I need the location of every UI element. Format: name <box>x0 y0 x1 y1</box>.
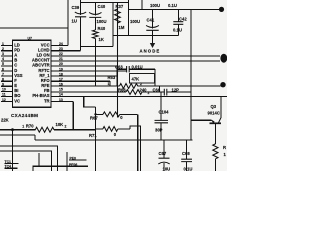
node terminal dot top right <box>219 7 224 12</box>
capacitor C41 electrolytic symbol <box>146 25 159 30</box>
svg-text:R70: R70 <box>26 123 34 128</box>
node junction R67 row <box>94 113 96 115</box>
wire small jog x38.9 <box>38 153 40 166</box>
wire below resistor to bottom <box>214 159 216 171</box>
resistor R63 zigzag <box>120 84 138 89</box>
svg-text:2: 2 <box>65 125 67 129</box>
wire Q3 collector up to pin14 rail <box>220 96 222 117</box>
wire vertical x95.5 bottom continuation <box>95 129 97 171</box>
wire jog R63 row down to R66 row <box>158 86 160 92</box>
svg-text:U7: U7 <box>28 36 32 40</box>
U7 pin 10 stub <box>1 90 13 92</box>
capacitor C66 symbol <box>164 89 167 96</box>
wire R67 right vertical down x137.7 <box>137 114 139 171</box>
svg-text:9014C: 9014C <box>208 110 220 115</box>
U7 pin 9 stub <box>1 85 13 87</box>
node ANODE arrow <box>150 43 155 48</box>
svg-text:Q3: Q3 <box>211 104 217 109</box>
wire jog pin17 to R63 row <box>109 81 111 86</box>
svg-text:9: 9 <box>2 83 4 87</box>
U7 pin 7 stub <box>1 75 13 77</box>
wire vertical x67 bottom <box>66 152 68 171</box>
capacitor C39 electrolytic symbol <box>75 12 86 17</box>
wire box right edge x113 (R37 cell left) <box>112 3 114 47</box>
wire pin20 row <box>51 65 117 67</box>
svg-text:C40: C40 <box>98 4 106 9</box>
svg-text:12: 12 <box>2 98 6 102</box>
wire ANODE feed down from cell bottom <box>152 36 154 44</box>
capacitor C67 electrolytic symbol <box>158 158 169 164</box>
svg-text:240: 240 <box>140 87 148 92</box>
svg-text:R67: R67 <box>90 116 98 121</box>
svg-text:2: 2 <box>2 47 4 51</box>
U7 pin 2 stub <box>1 50 13 52</box>
wire long vertical x190.9 <box>190 9 192 139</box>
U7 pin 12 stub <box>1 101 13 103</box>
resistor R66 zigzag <box>126 90 142 95</box>
wire PE0 underline <box>69 159 87 161</box>
svg-text:VC: VC <box>14 98 20 103</box>
svg-text:5: 5 <box>2 62 4 66</box>
svg-text:R: R <box>223 145 226 150</box>
wire C63 right vertical x155 <box>154 69 156 86</box>
svg-text:47K: 47K <box>132 77 140 82</box>
svg-text:1: 1 <box>2 42 4 46</box>
svg-text:C104: C104 <box>159 110 170 115</box>
U7 pin 5 stub <box>1 65 13 67</box>
U7 pin 8 stub <box>1 80 13 82</box>
svg-text:12P: 12P <box>172 87 180 92</box>
wire vertical x12.5 down <box>12 130 14 171</box>
capacitor C68 branch wire <box>186 140 188 171</box>
wire pin21 ABCCNT rail to right terminal <box>51 60 220 62</box>
op-amp/driver IC U7 CXA244BM body <box>13 40 52 107</box>
resistor R71 zigzag <box>103 127 118 132</box>
svg-text:15: 15 <box>59 88 63 92</box>
svg-text:1K: 1K <box>99 37 104 42</box>
svg-text:R63: R63 <box>108 75 116 80</box>
wire R67 row <box>96 113 138 115</box>
U7 pin 3 stub <box>1 55 13 57</box>
U7 pin 6 stub <box>1 70 13 72</box>
svg-text:CXA244BM: CXA244BM <box>11 113 38 118</box>
svg-text:2: 2 <box>148 91 150 95</box>
svg-text:0.01U: 0.01U <box>132 64 143 69</box>
capacitor C41 branch wire <box>152 9 154 35</box>
wire pin15 row with R66 C66 <box>51 91 191 93</box>
wire R70 row from left edge <box>0 129 96 131</box>
svg-text:0.1U: 0.1U <box>184 167 193 172</box>
resistor R40 zigzag <box>93 30 99 39</box>
wire TC1 underline <box>5 163 19 165</box>
svg-text:10U: 10U <box>163 167 171 172</box>
svg-text:4: 4 <box>2 57 4 61</box>
transistor Q3 symbol <box>210 122 222 124</box>
svg-text:C41: C41 <box>147 18 155 23</box>
U7 pin 1 stub <box>1 45 13 47</box>
capacitor C42 symbol <box>173 22 183 25</box>
wire pin16 / R63 row to right terminal <box>51 85 221 87</box>
resistor R63 value box 47K <box>130 74 155 84</box>
wire R71 jog up and over to x140.6 <box>130 126 141 171</box>
svg-text:C63: C63 <box>115 64 123 69</box>
capacitor C104 symbol <box>155 120 169 122</box>
wire box bottom y46.5 (C40/R40 cell) <box>81 46 114 48</box>
wire C63 row y69.2 <box>117 68 155 70</box>
wire vertical stub x142 top <box>141 0 143 9</box>
svg-text:R37: R37 <box>116 4 124 9</box>
svg-text:11: 11 <box>2 93 6 97</box>
svg-text:100U: 100U <box>150 3 160 8</box>
capacitor C67 branch wire <box>163 140 165 171</box>
resistor R67 zigzag <box>103 112 120 117</box>
svg-text:C66: C66 <box>153 87 161 92</box>
svg-text:0.1U: 0.1U <box>173 28 182 33</box>
wire Q3 left lead from ladder <box>191 119 212 121</box>
wire horizontal to left edge y28 <box>0 27 68 29</box>
wire vertical x95.5 to R67/R71 rows <box>95 107 97 129</box>
wire TC4 underline <box>5 167 18 169</box>
node terminal dot right edge (RF row) <box>220 82 225 87</box>
wire ground rail y139.8 <box>0 135 192 140</box>
svg-text:C42: C42 <box>179 17 187 22</box>
wire pin19 row <box>51 70 126 72</box>
svg-text:7: 7 <box>2 72 4 76</box>
capacitor C40 electrolytic symbol <box>89 12 101 17</box>
wire pin24 stub to riser <box>51 45 68 47</box>
U7 pin 4 stub <box>1 60 13 62</box>
capacitor C63 symbol <box>127 66 130 72</box>
wire pin14 branch down x83.7 <box>84 96 96 106</box>
svg-text:PE06: PE06 <box>69 163 77 167</box>
wire R40 bottom stub down to pin16 row <box>94 47 96 87</box>
capacitor C104 branch wire <box>160 92 162 140</box>
svg-text:C67: C67 <box>159 151 167 156</box>
svg-text:100U: 100U <box>97 19 107 24</box>
wire R37 cell right edge x128.6 <box>128 0 130 36</box>
svg-text:0.1U: 0.1U <box>168 3 177 8</box>
svg-text:C68: C68 <box>182 151 190 156</box>
wire C39 branch vertical x80.5 <box>80 0 82 51</box>
svg-text:R71: R71 <box>89 133 97 138</box>
capacitor C68 symbol <box>181 159 192 161</box>
wire cell bottom y35.5 <box>113 35 178 37</box>
svg-text:1: 1 <box>108 82 110 86</box>
svg-text:22K: 22K <box>1 118 9 123</box>
svg-text:C39: C39 <box>72 5 80 10</box>
node junction dot R70 row <box>11 128 14 131</box>
svg-text:R66: R66 <box>118 87 126 92</box>
svg-text:1M: 1M <box>119 25 125 30</box>
svg-text:10K: 10K <box>56 122 64 127</box>
wire pin13 row <box>51 101 73 103</box>
resistor R37 zigzag vertical <box>115 3 121 118</box>
wire C40/R40 branch vertical x95.3 <box>94 3 96 47</box>
svg-text:6: 6 <box>2 67 4 71</box>
svg-text:1: 1 <box>22 125 24 129</box>
wire pin13 vertical down to R70 row <box>72 102 74 130</box>
node terminal dot (double rail) right edge <box>220 54 227 63</box>
svg-text:1U: 1U <box>72 19 77 24</box>
wire pin23 row to C39 branch <box>51 50 81 52</box>
resistor R70 zigzag <box>35 127 54 132</box>
wire top rail y2.5 over C40/R37 <box>81 2 129 4</box>
wire rail y9.4 to terminal <box>129 8 219 10</box>
svg-text:TR: TR <box>44 98 50 103</box>
wire corner H1 y146 <box>0 146 57 171</box>
svg-text:30P: 30P <box>155 128 163 133</box>
svg-text:R40: R40 <box>98 26 106 31</box>
wire pin14 rail full width <box>51 95 227 97</box>
wire pin22 LD ON rail to right terminal <box>51 55 220 57</box>
svg-text:3: 3 <box>2 52 4 56</box>
transistor Q3 emitter arrow <box>212 120 215 123</box>
svg-text:100U: 100U <box>130 19 140 24</box>
svg-text:8: 8 <box>2 78 4 82</box>
wire C63 left vertical x117 <box>116 66 118 86</box>
wire bottom box top edge <box>33 166 88 171</box>
wire VCC pin24 vertical riser x68 <box>67 0 69 46</box>
svg-text:10: 10 <box>2 88 6 92</box>
wire Q3 base lead down <box>214 123 216 144</box>
resistor R (right edge) zigzag <box>213 144 218 159</box>
capacitor C42 branch wire <box>177 9 179 35</box>
wire pin18 row <box>51 75 117 77</box>
wire R71 row <box>96 128 131 130</box>
svg-text:ANODE: ANODE <box>140 49 161 54</box>
wire corner H2 y151 <box>0 151 52 171</box>
U7 pin 11 stub <box>1 95 13 97</box>
wire pin17 row <box>51 80 110 82</box>
